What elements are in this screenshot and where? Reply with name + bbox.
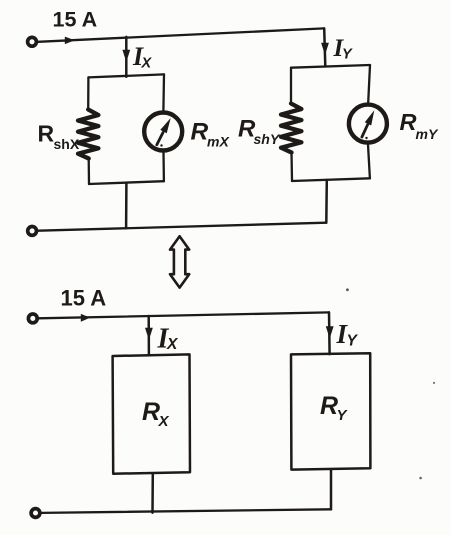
- arrow I_X (upper): [122, 50, 130, 62]
- scan speck 2: [433, 382, 435, 384]
- wire: R_Y to bottom rail: [330, 469, 333, 509]
- arrow I_Y (lower): [326, 326, 334, 338]
- ammeter U_Y needle: [362, 125, 368, 138]
- svg-text:R: R: [400, 109, 417, 135]
- scan speck 3: [419, 477, 422, 480]
- arrow I_X (lower): [145, 328, 153, 340]
- wire: R_X to bottom rail: [151, 474, 154, 513]
- wire: I_Y branch drop (lower): [328, 312, 331, 354]
- wire: X loop left lower segment: [88, 158, 91, 184]
- terminal (lower-left of lower circuit): [31, 509, 40, 518]
- current arrow on top rail: [65, 37, 75, 45]
- wire: Y loop right lower segment: [368, 145, 370, 179]
- arrow I_Y (upper): [321, 43, 329, 55]
- wire: I_X branch drop (lower): [147, 316, 150, 355]
- resistor R_shY: [281, 104, 301, 153]
- terminal (lower-left of upper circuit): [28, 227, 37, 236]
- wire: X loop right upper segment: [162, 74, 165, 110]
- current arrow on lower top rail: [81, 314, 90, 322]
- svg-text:Y: Y: [342, 46, 353, 62]
- wire: Y loop right upper segment: [368, 65, 370, 103]
- svg-text:mX: mX: [207, 134, 230, 150]
- svg-text:R: R: [320, 392, 338, 420]
- wire: X loop left upper segment: [87, 77, 90, 110]
- resistor R_shX: [78, 110, 98, 159]
- scan speck 1: [346, 288, 349, 291]
- wire: top rail of lower circuit: [38, 312, 329, 318]
- wire: X loop top edge: [89, 74, 165, 77]
- wire: X loop bottom edge: [89, 181, 164, 184]
- svg-text:R: R: [191, 119, 209, 146]
- terminal (upper-left input): [28, 37, 37, 46]
- ammeter U_X body: [144, 113, 182, 151]
- wire: bottom rail of upper circuit: [38, 223, 326, 231]
- equivalence double arrow: [170, 236, 189, 287]
- wire: Y loop bottom edge: [292, 178, 370, 181]
- wire: I_X branch drop: [125, 37, 128, 77]
- svg-text:X: X: [166, 336, 179, 353]
- wire: Y branch to bottom rail: [325, 180, 328, 223]
- wire: X loop right lower segment: [162, 152, 165, 181]
- wire: X branch to bottom rail: [125, 184, 128, 229]
- svg-text:Y: Y: [337, 407, 349, 424]
- svg-text:R: R: [38, 121, 55, 147]
- svg-text:Y: Y: [347, 332, 359, 349]
- svg-text:15 A: 15 A: [61, 286, 107, 311]
- wire: I_Y branch drop (upper): [324, 28, 325, 66]
- box R_Y: [291, 353, 370, 469]
- box R_X: [113, 354, 190, 473]
- svg-text:shX: shX: [54, 136, 80, 152]
- svg-text:X: X: [141, 56, 153, 72]
- svg-text:R: R: [142, 398, 160, 426]
- wire: Y loop top edge: [291, 65, 370, 68]
- wire: Y loop left lower segment: [290, 152, 293, 181]
- ammeter U_Y body: [349, 105, 387, 143]
- wire: Y loop left upper segment: [290, 68, 292, 104]
- svg-text:shY: shY: [254, 131, 281, 147]
- terminal (upper-left input, lower circuit): [28, 314, 37, 323]
- wire: bottom rail of lower circuit: [42, 509, 332, 513]
- ammeter U_X needle: [157, 133, 163, 145]
- svg-text:mY: mY: [416, 126, 439, 142]
- wire: top rail of upper circuit: [38, 28, 324, 41]
- svg-text:X: X: [158, 413, 170, 430]
- svg-text:15 A: 15 A: [53, 8, 98, 32]
